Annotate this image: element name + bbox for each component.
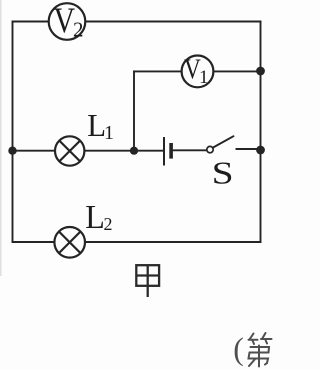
wire: V1 branch right (213, 70, 260, 72)
wire: V1 branch vertical (133, 71, 135, 150)
caption 甲 (drawn strokes) (136, 265, 159, 297)
lamp L2 (54, 227, 85, 258)
wire: bottom right segment (86, 241, 261, 243)
battery cell: short thick plate (169, 143, 173, 159)
middle horizontal (250, 352, 269, 354)
horizontal fold (top of bow) (251, 347, 270, 353)
label L2 (85, 199, 112, 236)
label L1 (87, 108, 114, 144)
svg-text:1: 1 (104, 122, 114, 144)
bamboo radical left (250, 334, 254, 340)
wire: top left segment (13, 21, 49, 23)
switch S pivot (207, 146, 213, 152)
wire: bottom left segment (13, 241, 55, 243)
left fold down (249, 353, 269, 365)
switch S lever (213, 136, 233, 147)
voltmeter V2 (49, 0, 86, 41)
svg-text:2: 2 (104, 214, 113, 234)
wire: top right segment (86, 21, 261, 23)
bamboo radical right (262, 333, 266, 339)
wire: battery to switch (173, 149, 207, 151)
svg-text:(: ( (233, 331, 244, 366)
svg-text:1: 1 (199, 67, 209, 88)
junction node right top (256, 67, 265, 76)
center vertical (258, 346, 260, 367)
voltmeter V1 (182, 54, 214, 88)
lamp L1 (55, 136, 84, 165)
wire: L1 to battery (85, 150, 164, 152)
junction node right middle (256, 146, 265, 155)
svg-text:L: L (85, 199, 105, 236)
wire: left side (12, 22, 14, 243)
svg-text:2: 2 (73, 18, 84, 42)
wire: middle branch left of L1 (13, 150, 56, 152)
wire: V1 branch left (134, 70, 182, 72)
wire: switch contact to right (237, 148, 261, 150)
left sweep (249, 359, 256, 367)
battery cell: long plate (163, 137, 165, 166)
scan edge artifact (0, 0, 2, 276)
caption 第 (drawn strokes) (249, 333, 272, 367)
svg-text:V: V (54, 0, 76, 40)
junction node left (8, 147, 16, 155)
svg-text:S: S (212, 155, 234, 191)
wire: right side (260, 22, 262, 243)
junction node V1-branch bottom (130, 147, 138, 155)
